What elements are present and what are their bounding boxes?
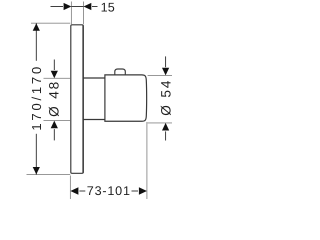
dim 170/170: bottom arrow — [33, 167, 40, 174]
dim 170/170: dimension line upper — [35, 23, 37, 61]
safety-stop button on knob top — [115, 69, 126, 75]
dim O48: bottom extension line — [44, 120, 71, 122]
dim 73-101: right arrow — [139, 187, 147, 195]
dim O54: lower arrow — [162, 123, 169, 131]
sleeve bottom edge — [83, 119, 105, 121]
dim O48: upper arrow stem — [53, 60, 55, 71]
dim O54: bottom extension line — [148, 122, 172, 124]
dim O48: upper arrow — [51, 71, 58, 79]
dim O48: lower arrow — [51, 121, 58, 129]
escutcheon plate (side view) — [71, 25, 83, 174]
plate front face edge — [82, 25, 84, 173]
svg-text:73-101: 73-101 — [87, 184, 131, 198]
svg-text:15: 15 — [101, 0, 115, 14]
dim 15: left arrow — [64, 3, 72, 10]
dim 170/170: top extension line — [31, 22, 70, 24]
dim 15: right extension line — [83, 2, 85, 25]
dim O48: top extension line — [44, 77, 71, 79]
dim 15: left extension line — [70, 2, 72, 25]
dim 73-101: left extension line — [69, 176, 71, 200]
dim O54: upper arrow stem — [165, 56, 167, 67]
dim O48: lower arrow stem — [53, 129, 55, 140]
dim 73-101: dimension line left — [79, 190, 85, 192]
handle knob body — [105, 75, 147, 121]
dim 170/170: dimension line lower — [35, 134, 37, 175]
dim 170/170: top arrow — [33, 23, 40, 30]
dim 15: right arrow — [84, 3, 92, 10]
dim O54: top extension line — [148, 74, 172, 76]
dim 15: dimension line — [51, 6, 64, 8]
svg-text:170/170: 170/170 — [29, 64, 44, 131]
svg-text:Ø 54: Ø 54 — [158, 79, 173, 116]
svg-text:Ø 48: Ø 48 — [46, 80, 61, 117]
dim O54: lower arrow stem — [165, 131, 167, 140]
dim 73-101: right extension line — [146, 122, 148, 199]
sleeve top edge — [83, 77, 105, 79]
dim 170/170: bottom extension line — [27, 174, 71, 176]
dim O54: upper arrow — [162, 68, 169, 76]
dim 73-101: left arrow — [70, 187, 78, 195]
dim 73-101: dimension line right — [132, 190, 139, 192]
